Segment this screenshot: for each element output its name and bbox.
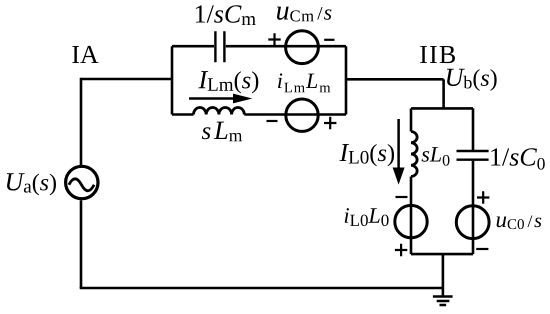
minus sign of i_L0 source [396, 196, 408, 198]
source u_Cm/s [286, 31, 319, 64]
plus sign of i_Lm source [324, 117, 336, 129]
label i_L0 L_0 [345, 208, 389, 226]
wire right branch upper [472, 108, 475, 150]
wire right loop bottom bar [411, 253, 473, 256]
label I_L0(s) [339, 144, 394, 166]
plus sign of u_Cm source [268, 33, 280, 45]
label I_Lm(s) [198, 71, 258, 93]
label 1/sC_0 [491, 148, 544, 169]
label U_b(s) [447, 69, 497, 91]
inductor L_0 coil [411, 132, 417, 177]
wire top branch right [226, 45, 346, 48]
plus sign of i_L0 source [395, 244, 407, 256]
source u_C0/s [456, 206, 489, 239]
wire bottom branch right [244, 113, 346, 116]
wire top branch left [172, 45, 214, 48]
node IA label [72, 46, 98, 63]
wire left vertical bottom [80, 200, 83, 288]
ground symbol [433, 297, 453, 306]
minus sign of u_C0 source [476, 248, 488, 250]
label sL_m [202, 122, 242, 142]
node IIB label [420, 46, 455, 63]
capacitor C_m plates [215, 31, 224, 62]
label U_a(s) [7, 173, 56, 195]
label u_C0/s [497, 215, 542, 229]
sine symbol inside U_a [69, 179, 94, 191]
wire ground stub [442, 254, 445, 296]
plus sign of u_C0 source [477, 191, 489, 203]
wire top loop right edge [345, 46, 348, 114]
wire left branch lower [410, 177, 413, 255]
wire top loop left edge [171, 46, 174, 114]
inductor L_m coil [194, 107, 245, 114]
wire right loop top bar [411, 107, 473, 110]
source i_L0 L_0 [395, 205, 427, 237]
current arrow I_L0 head [393, 168, 405, 185]
wire bottom horizontal [80, 287, 443, 290]
source i_Lm L_m [286, 99, 318, 131]
label sL_0 [422, 147, 450, 166]
capacitor C_0 plates [457, 151, 489, 160]
current arrow I_L0 line [397, 119, 400, 170]
wire left vertical top from node IA to source Ua [80, 78, 83, 165]
wire left branch upper [410, 108, 413, 131]
label i_Lm L_m [278, 73, 330, 92]
current arrow I_Lm line [189, 97, 235, 100]
wire node IA horizontal [81, 78, 172, 81]
label 1/sC_m [196, 5, 256, 25]
current arrow I_Lm head [233, 94, 252, 104]
source U_a(s) sinusoidal source [66, 166, 98, 198]
minus sign of i_Lm source [267, 120, 278, 122]
label u_Cm/s [277, 7, 331, 22]
wire right branch lower [472, 161, 475, 254]
wire U_b vertical drop [442, 79, 445, 108]
wire mid right to node IIB [346, 78, 444, 81]
minus sign of u_Cm source [324, 39, 334, 41]
wire bottom branch left [172, 113, 194, 116]
